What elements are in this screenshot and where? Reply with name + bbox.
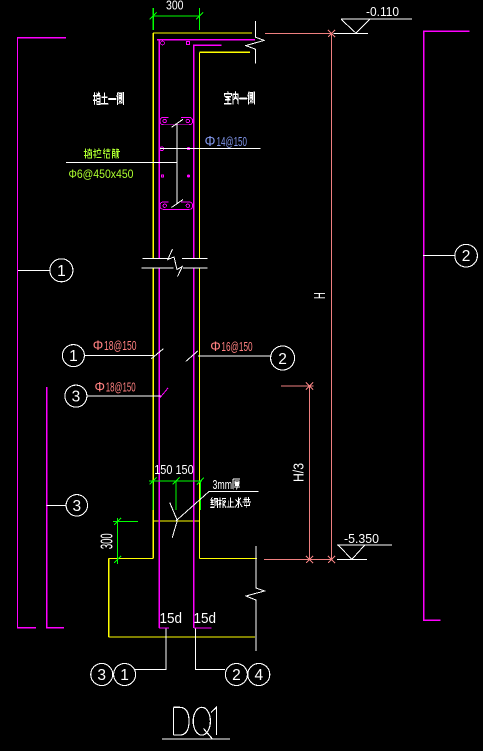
title underline: [162, 738, 230, 740]
circle 2 rebar label: [271, 346, 295, 370]
magenta tick on rebar 3 leader: [159, 388, 168, 399]
left vertical bar: [158, 40, 160, 628]
circle 1 rebar label: [62, 345, 84, 367]
break symbol on footing right: [246, 546, 265, 651]
svg-text:2: 2: [462, 248, 471, 265]
dimension line H/3: [309, 386, 311, 559]
break symbol on wall: [141, 249, 207, 277]
leader to circle 3 bracket: [47, 504, 67, 506]
bottom leader circles 2 4: [196, 629, 226, 670]
wall right edge: [199, 52, 201, 558]
leader to circle 1 rebar: [85, 355, 154, 357]
slab top edge: [153, 32, 252, 34]
right bar corner into slab: [194, 45, 222, 628]
dimension 300 vertical green: [113, 518, 138, 564]
rebar section dots: [160, 41, 190, 177]
svg-text:18@150: 18@150: [106, 380, 136, 394]
leader wall tie label: [66, 161, 177, 163]
svg-text:3mm: 3mm: [213, 478, 233, 492]
footing top left: [109, 557, 154, 559]
wall left outer edge: [152, 33, 154, 558]
elevation symbol -0.110: [334, 19, 412, 33]
svg-text:300: 300: [96, 533, 116, 549]
dimension 150 150 green: [149, 478, 204, 510]
red axis line at -0.110: [264, 30, 335, 563]
rebar lines magenta: [157, 40, 255, 628]
left bar hook 15d: [159, 627, 169, 629]
svg-text:3: 3: [97, 667, 106, 684]
break symbol on slab: [246, 21, 264, 64]
footing left edge: [108, 558, 110, 637]
bracket 3 left inner magenta: [47, 387, 64, 628]
svg-text:Φ: Φ: [205, 133, 216, 150]
wall outline yellow: [109, 33, 257, 637]
svg-text:-5.350: -5.350: [344, 532, 379, 546]
svg-text:2: 2: [278, 351, 287, 368]
tie bar slot top: [160, 117, 193, 124]
construction joint: [153, 520, 200, 522]
svg-text:1: 1: [57, 263, 66, 280]
svg-text:300: 300: [166, 0, 184, 12]
circle 2 bracket label: [455, 244, 478, 267]
tie bar slot bottom: [160, 202, 193, 209]
dimension line H: [331, 33, 333, 559]
svg-text:H/3: H/3: [291, 463, 307, 482]
svg-text:16@150: 16@150: [221, 340, 252, 354]
red line at -5.350: [264, 558, 332, 560]
svg-text:1: 1: [69, 348, 78, 365]
bracket 2 right magenta: [424, 31, 470, 620]
dimension 300 top green: [150, 8, 203, 30]
svg-text:Φ: Φ: [93, 337, 104, 353]
leader phi14@150: [160, 148, 261, 150]
bracket 1 left outer magenta: [18, 38, 67, 628]
top slab bar: [157, 39, 255, 41]
svg-text:3: 3: [72, 389, 81, 406]
leader to circle 2 bracket right: [423, 254, 455, 256]
svg-text:-0.110: -0.110: [366, 5, 399, 19]
svg-text:14@150: 14@150: [217, 135, 248, 149]
svg-text:H: H: [312, 292, 329, 299]
circle 1 bracket label: [50, 259, 73, 282]
svg-text:Φ: Φ: [95, 378, 106, 394]
label dang tu yi ce white: [93, 92, 123, 104]
lap splice line white: [172, 119, 184, 207]
svg-text:3: 3: [72, 498, 81, 515]
svg-text:2: 2: [232, 667, 241, 684]
svg-text:18@150: 18@150: [104, 339, 137, 353]
bottom leader circles 3 1: [135, 629, 166, 670]
circle 3 bracket label: [66, 495, 87, 516]
title DQ1: [173, 707, 216, 739]
elevation symbol -5.350: [337, 545, 392, 560]
svg-text:4: 4: [254, 667, 263, 684]
svg-text:Φ: Φ: [210, 338, 221, 354]
footing top right: [200, 557, 257, 559]
label steel plate waterstop: [211, 498, 251, 508]
svg-text:150 150: 150 150: [154, 463, 194, 477]
leader to circle 1 bracket: [18, 269, 50, 271]
leader to circle 3 rebar: [87, 395, 161, 397]
svg-text:15d: 15d: [160, 610, 183, 627]
right bar hook 15d: [194, 627, 212, 629]
waterstop symbol: [170, 503, 178, 538]
svg-text:1: 1: [120, 667, 129, 684]
waterstop leader: [176, 492, 259, 522]
label qiang la jie jin green: [84, 149, 119, 158]
svg-text:Φ6@450x450: Φ6@450x450: [69, 167, 134, 181]
svg-text:15d: 15d: [194, 610, 217, 627]
label shi nei yi ce white: [224, 92, 254, 104]
slab bottom edge: [200, 51, 251, 53]
circle 3 rebar label: [65, 385, 87, 407]
leader to circle 2 rebar: [198, 355, 270, 357]
footing bottom: [109, 636, 255, 638]
